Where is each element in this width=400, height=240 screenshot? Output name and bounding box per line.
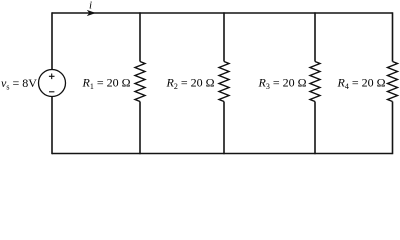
svg-text:R2 = 20 Ω: R2 = 20 Ω (166, 76, 215, 92)
resistor R4 zigzag (388, 62, 398, 102)
wire R2 lower (223, 102, 225, 155)
svg-text:R4 = 20 Ω: R4 = 20 Ω (337, 76, 386, 92)
wire R2 upper (223, 12, 225, 61)
wire bottom (52, 153, 393, 155)
vs minus terminal (49, 91, 54, 93)
resistor R3 zigzag (310, 62, 320, 102)
current arrow i on top wire (87, 10, 96, 16)
wire top (52, 12, 393, 14)
wire R1 lower (139, 102, 141, 155)
wire left upper (51, 12, 53, 69)
svg-text:vs = 8V: vs = 8V (1, 76, 37, 92)
wire R4 upper (right edge) (392, 12, 394, 61)
voltage source vs circle (39, 70, 66, 97)
wire R1 upper (139, 12, 141, 61)
wire R4 lower (right edge) (392, 102, 394, 155)
wire left lower (51, 97, 53, 155)
svg-text:i: i (89, 0, 92, 12)
wire R3 lower (314, 102, 316, 155)
vs plus terminal (49, 74, 55, 80)
svg-text:R1 = 20 Ω: R1 = 20 Ω (82, 76, 131, 92)
svg-text:R3 = 20 Ω: R3 = 20 Ω (258, 76, 307, 92)
resistor R2 zigzag (219, 62, 229, 102)
wire R3 upper (314, 12, 316, 61)
resistor R1 zigzag (135, 62, 145, 102)
